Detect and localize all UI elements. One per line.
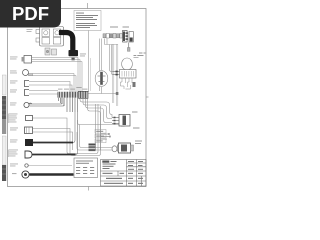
wire: band header link [105, 44, 118, 46]
connector P5 hook [24, 102, 32, 107]
lamp M1 base [120, 70, 137, 79]
wire: P5 leads [30, 98, 65, 106]
drawing frame border [8, 9, 147, 187]
wire: P6 lead [33, 104, 99, 154]
left column row10 label [10, 164, 18, 167]
connector P1 [22, 56, 32, 64]
legend table [74, 158, 98, 178]
pump M2 label [135, 141, 142, 145]
stub terminals left of pump [101, 133, 111, 139]
note box N1 [74, 11, 101, 31]
title block text [102, 161, 143, 184]
label above fuse chain [110, 27, 129, 28]
wire: P7 leads [33, 106, 101, 156]
wire: thick battery cable from J1 [59, 33, 73, 51]
relay stack labels [95, 130, 106, 143]
left column row9 label brace [7, 150, 9, 158]
switch S1 circle [95, 71, 108, 87]
pump M2 [117, 143, 134, 153]
wire: bundle fan below knot [30, 98, 65, 106]
connector C2 cable end block [69, 50, 79, 56]
connector P11 grommet [22, 171, 29, 178]
left column row5 label [10, 103, 17, 106]
left column row8 label [10, 140, 18, 143]
left column row4 label [10, 90, 17, 93]
left column row3 label [10, 81, 18, 84]
wire: P4 leads [29, 91, 58, 95]
wire: knot output horizontal [88, 93, 118, 95]
relay stack K2 [89, 144, 96, 152]
connector P3 [25, 81, 30, 87]
wire: P8 thick lead [33, 142, 73, 144]
left column row1 label [10, 57, 18, 60]
splice knot band [58, 91, 88, 98]
connector J1 main harness header [36, 23, 64, 46]
right fold tick [146, 96, 149, 98]
wire: hanging lead with ring terminal [127, 43, 130, 52]
wire: loop bundle from knot [80, 98, 112, 150]
inline connector C6 oval [112, 146, 117, 152]
connector P6 [26, 116, 33, 121]
splice knot labels [58, 87, 88, 90]
wire: long feed line to C4 [78, 120, 125, 126]
connector P10 small [25, 164, 28, 167]
connector C2 lower terminal [72, 58, 75, 61]
connector P9 D-shell [25, 151, 32, 158]
wire: C5 pig-tails [112, 118, 119, 124]
left column row6 label [9, 114, 18, 123]
svg-text:PDF: PDF [12, 3, 49, 24]
lamp M1 pins below [121, 78, 133, 89]
connector J1 label [27, 29, 33, 32]
wire: P1 leads [32, 58, 83, 93]
lamp M1 balloon [122, 58, 133, 70]
left margin vertical document label strip [2, 75, 6, 181]
connector P8 solid [25, 139, 33, 146]
left column row2 label [10, 71, 17, 74]
junction tick on band [116, 92, 119, 95]
left column row9 label [9, 150, 18, 157]
title block [101, 160, 147, 187]
splice knot fan below [59, 98, 78, 112]
fuse chain F1 [103, 33, 122, 38]
connector P2 round [23, 70, 33, 76]
wire: gray bus bands [112, 44, 117, 106]
connector C5 module right [119, 115, 130, 127]
connector C5 label [132, 112, 140, 129]
label XX near lamp [134, 55, 140, 58]
lamp M1 side terminal [133, 82, 136, 87]
PDF badge [0, 0, 61, 28]
left column row11 label 12 [12, 173, 17, 174]
relay K1 [123, 31, 129, 43]
left column row7 label [10, 128, 18, 131]
wire: arrow feeds into lamp base [113, 72, 120, 75]
connector J1 lower latch parts [45, 48, 57, 55]
wire: drop from note box [88, 31, 90, 93]
bottom fold tick [88, 187, 90, 191]
top fold tick [87, 3, 89, 9]
wire: P9 thick lead [32, 154, 76, 156]
wire: P3 leads [29, 82, 72, 93]
connector C3 right of relay [129, 32, 133, 43]
wire: bus pair descending to lamp module [100, 39, 113, 94]
connector P4 [25, 90, 30, 96]
wire: pump feed pair [77, 125, 112, 151]
wire: P10 lead [29, 165, 73, 167]
wire: P11 thick lead [30, 173, 74, 175]
connector P7 [25, 127, 33, 134]
label right of C2 [80, 54, 86, 57]
wire: P2 leads [33, 74, 77, 93]
left column row6 label brace [7, 114, 9, 124]
corner reference text [139, 53, 146, 57]
